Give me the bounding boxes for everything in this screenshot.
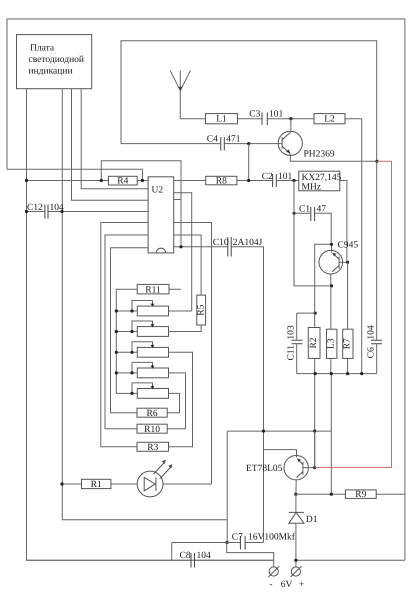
junction C12 left [25,210,28,213]
junction C945 bottom [330,284,333,287]
PH2369 internals [282,132,291,153]
ET78L05 internals [297,460,303,478]
svg-text:MHz: MHz [302,182,322,192]
potentiometer P3 [137,347,168,357]
wire C8 gap [27,559,274,561]
svg-text:C1: C1 [299,205,310,215]
junction D1 bottom [294,559,297,562]
junction bracket pot5 [130,392,133,395]
junction C945 base [346,261,349,264]
svg-text:C6: C6 [366,347,376,358]
wire C2 to C945 bottom [294,181,332,286]
wire C945 top [331,244,333,252]
pot4 wiper arrow [151,366,155,369]
potentiometer P2 [137,327,168,337]
U2 notch [156,248,166,253]
svg-text:C10: C10 [213,238,229,248]
junction rail L2 [360,372,363,375]
resistor R5 [197,295,206,325]
svg-text:103: 103 [287,325,297,340]
wire R2 column [314,286,316,468]
svg-text:16V100Mkf: 16V100Mkf [248,533,296,543]
wire pot2 left [116,331,137,333]
wire C945 base [339,261,348,263]
wire C7 net [172,543,264,561]
svg-text:U2: U2 [152,186,164,196]
resistor R11 [137,284,169,294]
svg-text:R6: R6 [147,409,158,419]
pot3 wiper arrow [151,345,155,348]
resistor R2 [308,328,320,359]
capacitor C8 [191,553,195,568]
svg-text:C2: C2 [262,172,273,182]
junction C7 tap [225,541,228,544]
wire minus terminal link [227,543,274,567]
junction C12 right [60,210,63,213]
svg-text:индикации: индикации [29,67,73,77]
junction C11 R2 [314,312,317,315]
resistor R6 [137,408,167,417]
wire border feed loop [7,169,142,180]
PH2369 emitter arrow [286,149,290,153]
svg-text:R1: R1 [91,480,102,490]
wire pot4 right [167,373,185,429]
wire pot1 left [116,310,137,312]
wire U2 pin to R10 rail [105,235,148,429]
junction antenna collector [289,117,292,120]
wire antenna row [180,118,361,120]
transistor PH2369 circle [278,131,302,155]
wire U2 pin to R5 [174,235,201,295]
svg-text:R9: R9 [355,490,366,500]
wire ET78L05 collector [295,480,297,494]
junction R1 left [60,482,63,485]
wire R7 column [347,262,349,373]
svg-text:R11: R11 [145,285,161,295]
IC U2 [148,177,174,253]
terminal minus [269,567,278,576]
antenna arrowhead [179,87,182,91]
wire R1 LED net [62,483,212,485]
junction bus pot4 [115,371,118,374]
LED triangle and bar [144,477,156,490]
wire C10 net [174,247,264,543]
resistor R9 [345,490,376,499]
potentiometer P5 [137,389,168,399]
junction loop left [100,179,103,182]
svg-text:ET78L05: ET78L05 [246,464,283,474]
LED arrow 1 [154,462,165,474]
junction base red [313,466,316,469]
junction C4 R8riser [247,142,250,145]
C945 emitter arrow [332,253,336,257]
wire border bottom segment to plus terminal [296,559,405,561]
svg-text:C8: C8 [180,551,191,561]
capacitor C11 [292,340,303,344]
wire ET78L05 top [264,450,297,458]
svg-text:R4: R4 [117,177,128,187]
LED indication board box [17,35,92,89]
junction loop right [141,179,144,182]
svg-text:C12: C12 [27,203,43,213]
junction rail R7 [346,372,349,375]
wire L2 down [361,119,363,374]
svg-text:L1: L1 [216,115,227,125]
svg-text:C4: C4 [207,135,218,145]
wire pot5 right [167,393,179,412]
svg-text:L3: L3 [326,338,336,349]
svg-text:D1: D1 [306,515,318,525]
svg-text:104: 104 [197,551,212,561]
pot2 wiper arrow [151,324,155,327]
svg-text:47: 47 [317,205,327,215]
svg-text:PH2369: PH2369 [304,150,335,160]
pot5 wiper arrow [151,386,155,389]
potentiometer P4 [137,368,168,378]
wire U2 pin to R3 rail [101,223,148,447]
svg-text:104: 104 [366,325,376,340]
wire red link [315,161,392,467]
potentiometer P1 [137,306,168,316]
wire U2 pin to pot1 [174,193,192,311]
wire C6 branch [376,161,378,373]
wire PH2369 emitter [290,154,377,162]
crystal KX27145 box [299,171,340,191]
wire board lead 4 [81,89,148,189]
svg-text:C11: C11 [287,345,297,361]
antenna [170,71,190,119]
resistor R3 [137,442,169,451]
junction bus pot3 [115,351,118,354]
capacitor C1 [311,207,315,221]
svg-text:C3: C3 [249,110,260,120]
resistor R1 [82,479,111,488]
svg-text:R3: R3 [147,443,158,453]
wire R9 row [296,493,405,495]
wire pot3 wiper bracket [132,342,153,353]
junction bus pot2 [115,330,118,333]
wire R2col to base [314,431,316,468]
junction emitter red [375,160,378,163]
wire C11 branch [296,313,298,374]
inductor L2 [314,114,345,124]
svg-text:-: - [269,580,272,590]
svg-text:R10: R10 [144,425,160,435]
wire R8 C2 row [174,180,299,182]
wire C12 net [27,211,149,213]
junction rail L3 [330,372,333,375]
capacitor C7 [240,536,245,550]
svg-text:Плата: Плата [30,44,55,54]
svg-text:R7: R7 [343,338,353,349]
junction C945 top [330,243,333,246]
svg-text:C945: C945 [338,240,359,250]
wire main rail y180.5 [27,180,149,182]
svg-text:C7: C7 [232,533,243,543]
wire link y431 [227,430,331,432]
wire L3 column [330,286,333,494]
junction bracket pot2 [130,330,133,333]
junction R8 C4riser [247,179,250,182]
svg-text:R8: R8 [216,177,227,187]
resistor R4 [108,176,137,185]
junction bracket pot3 [130,351,133,354]
capacitor C10 [228,237,231,257]
svg-text:светодиодной: светодиодной [29,55,85,65]
wire pot1 wiper bracket [132,301,153,312]
capacitor C4 [221,137,225,151]
svg-text:101: 101 [278,172,293,182]
wire pot1 right [169,310,192,312]
diode D1 [289,512,304,523]
junction bus pot1 [115,309,118,312]
wire pot4 left [116,372,137,374]
svg-text:L2: L2 [324,115,335,125]
wire U2 right stub [174,199,181,201]
wire pot2 right [169,325,202,332]
svg-text:6V: 6V [281,580,293,590]
wire board lead 3 [72,89,149,201]
capacitor C12 [45,205,48,219]
capacitor C2 [273,174,277,187]
svg-text:101: 101 [269,110,284,120]
capacitor C3 [262,113,267,126]
wire U2 pin to R6 rail [111,248,149,413]
wire KX right [340,181,347,263]
wire board lead 2 [62,89,227,520]
svg-text:2A104J: 2A104J [233,238,263,248]
capacitor C6 [371,340,382,344]
wire D1 column [295,494,297,567]
resistor R8 [206,176,237,185]
svg-text:R5: R5 [197,304,207,315]
wire U2 pin to LED column [174,223,212,485]
wire board lead 1 [27,89,274,561]
wire bottom rail [297,373,377,375]
wire C945 bottom [330,274,332,286]
svg-text:R2: R2 [309,337,319,348]
resistor R10 [137,424,167,433]
junction R9 L3col [330,493,333,496]
inductor L1 [206,114,238,124]
junction C1 left [292,212,295,215]
transistor C945 circle [319,250,343,274]
junction y431 R2col [313,430,316,433]
junction C2 KX [292,179,295,182]
wire inner antenna loop [121,41,377,162]
junction C10 loop [179,245,182,248]
terminal plus stroke [291,566,302,577]
terminal minus stroke [268,566,279,577]
junction collector [294,493,297,496]
wire R11 net [116,289,181,393]
wire pot3 right [169,352,193,447]
junction rail R2 [314,372,317,375]
wire pot5 wiper bracket [132,383,153,394]
C945 internals [332,254,339,272]
wire C4 net [121,143,282,145]
wire C945 top bypass [315,244,332,286]
wire link left drop [226,431,228,542]
inductor L3 [327,329,337,358]
svg-text:+: + [299,580,304,590]
LED arrow 2 [160,467,171,479]
junction rail-lead1 [25,179,28,182]
wire pot3 left [116,351,137,353]
junction bracket pot4 [130,371,133,374]
wire pot2 wiper bracket [132,321,153,332]
wire C1 net [294,213,331,244]
wire ET78L05 base [303,467,315,469]
LED D2 circle [137,471,163,497]
transistor ET78L05 circle [284,456,308,480]
terminal plus [291,567,300,576]
junction y431 C10col [262,430,265,433]
wire C11 top bracket [297,312,316,314]
ET78L05 emitter arrow [297,459,301,463]
wire R4 bypass loop [101,161,181,247]
svg-text:471: 471 [226,135,241,145]
resistor R7 [343,329,353,358]
wire PH2369 collector [290,119,292,133]
wire pot4 wiper bracket [132,362,153,373]
pot1 wiper arrow [151,304,155,307]
wire riser C4 to R8 [248,144,250,181]
junction bracket pot1 [130,309,133,312]
